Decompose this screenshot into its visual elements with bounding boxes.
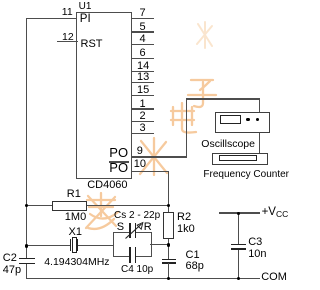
capacitor C2 bottom plate: [19, 263, 34, 264]
wire crystal row left: [26, 245, 71, 246]
label C3: [248, 237, 262, 248]
capacitor C1 bottom plate: [162, 262, 177, 263]
label PI: [80, 14, 91, 26]
wire pin10 corner vertical: [168, 171, 169, 206]
frequency counter box: [212, 153, 268, 166]
node junction rail/C1: [167, 277, 171, 281]
label RST: [81, 39, 103, 50]
wire oscilloscope right vertical down to counter: [259, 98, 260, 153]
resistor R2 body: [163, 212, 175, 239]
crystal X1 right plate: [77, 239, 79, 251]
label 47p: [3, 265, 21, 276]
wire loop to R2 vertical: [150, 244, 169, 245]
label 68p: [186, 261, 204, 272]
label S: [117, 222, 124, 233]
pin 4 number: [140, 34, 146, 45]
pin 13 number: [137, 72, 149, 83]
label U1: [79, 2, 92, 12]
label COM: [261, 272, 287, 283]
pin 6 number: [140, 48, 146, 59]
label Frequency Counter: [203, 170, 289, 180]
label 10n: [248, 249, 266, 260]
wire crystal row right: [78, 245, 113, 246]
capacitor C4 right plate: [135, 247, 137, 264]
trimmer bottom edge gap mask: [131, 255, 135, 258]
oscilloscope knob 2: [256, 118, 260, 122]
node junction pin10/R1/R2: [167, 204, 171, 208]
label X1: [69, 227, 82, 238]
pin 11 number: [62, 7, 73, 18]
pin 14 number: [137, 61, 149, 72]
label PO pin10: [109, 161, 128, 174]
wire pin 6 stub: [131, 58, 154, 59]
pin 2 number: [140, 111, 146, 122]
capacitor C4 left plate: [129, 247, 131, 264]
frequency counter slot: [219, 155, 257, 161]
pin 1 number: [140, 99, 146, 110]
wire pin 13 stub: [131, 82, 154, 83]
pin 12 number: [62, 32, 74, 43]
trimmer loop box: [113, 232, 153, 258]
label 1M0: [65, 212, 86, 223]
crystal X1 left plate: [70, 239, 72, 251]
op-amp U1 CD4060 IC body: [76, 12, 132, 179]
wire left vertical upper: [26, 18, 27, 258]
wire pin 5 stub: [131, 31, 154, 32]
label C2: [3, 253, 17, 264]
wire pin 14 stub: [131, 71, 154, 72]
node junction vcc/C3: [237, 212, 241, 216]
wire pin 12 stub: [57, 41, 78, 42]
label PO pin9: [109, 146, 128, 159]
wire left vertical lower: [26, 263, 27, 278]
wire pin 10: [131, 171, 169, 172]
node junction left/crystal: [25, 244, 29, 248]
wire mid vertical lower: [168, 263, 169, 278]
wire pin 7 stub: [131, 18, 154, 19]
label R1: [67, 189, 81, 200]
wire pin 3 stub: [131, 133, 154, 134]
trimmer arrow: [122, 219, 148, 241]
capacitor C3 bottom plate: [231, 248, 246, 250]
capacitor C2 top plate: [19, 258, 34, 259]
label Cs 2 - 22p: [114, 211, 160, 221]
label R trimmer: [144, 222, 152, 233]
pin 9 number: [137, 146, 143, 157]
wire R1 row: [26, 205, 170, 206]
wire pin 11 horizontal: [26, 18, 78, 19]
label 1k0: [177, 224, 195, 235]
wire C3 vertical upper: [238, 213, 239, 244]
capacitor C1 top plate: [162, 259, 177, 260]
wire pin 1 stub: [131, 108, 154, 109]
wire oscilloscope vertical left: [186, 98, 187, 157]
+VCC rail: [219, 212, 260, 214]
wire mid vertical R2/C1 upper: [168, 205, 169, 259]
pin 5 number: [140, 22, 146, 33]
pin 10 number: [134, 159, 146, 170]
oscilloscope screen: [220, 115, 242, 124]
label Oscillscope: [201, 139, 255, 150]
trimmer capacitor Cs right plate: [135, 223, 137, 238]
label 4.194304MHz: [44, 257, 109, 268]
label C1: [186, 250, 200, 261]
oscilloscope panel: [215, 112, 270, 133]
wire oscilloscope top: [186, 98, 261, 99]
crystal X1 body rect: [72, 237, 77, 252]
resistor R1 body: [52, 201, 87, 211]
pin 3 number: [140, 123, 146, 134]
wire pin 4 stub: [131, 44, 154, 45]
label C4 10p: [121, 265, 153, 275]
label +VCC: [262, 207, 289, 219]
label R2: [177, 212, 191, 223]
node junction rail/C3: [237, 277, 241, 281]
label PO pin10 overline: [109, 161, 129, 162]
wire pin 9: [131, 156, 186, 157]
trimmer capacitor Cs left plate: [129, 223, 131, 238]
trimmer top edge gap mask: [131, 231, 135, 233]
pin 15 number: [137, 85, 149, 96]
pin 7 number: [140, 8, 146, 19]
wire C3 vertical lower: [238, 250, 239, 279]
node junction loop/R2: [167, 243, 171, 247]
wire pin 15 stub: [131, 95, 154, 96]
oscilloscope knob 1: [246, 118, 250, 122]
label CD4060: [87, 180, 127, 191]
node junction left/R1: [25, 204, 29, 208]
COM bottom rail: [26, 278, 260, 280]
wire pin 2 stub: [131, 121, 154, 122]
capacitor C3 top plate: [231, 244, 246, 246]
